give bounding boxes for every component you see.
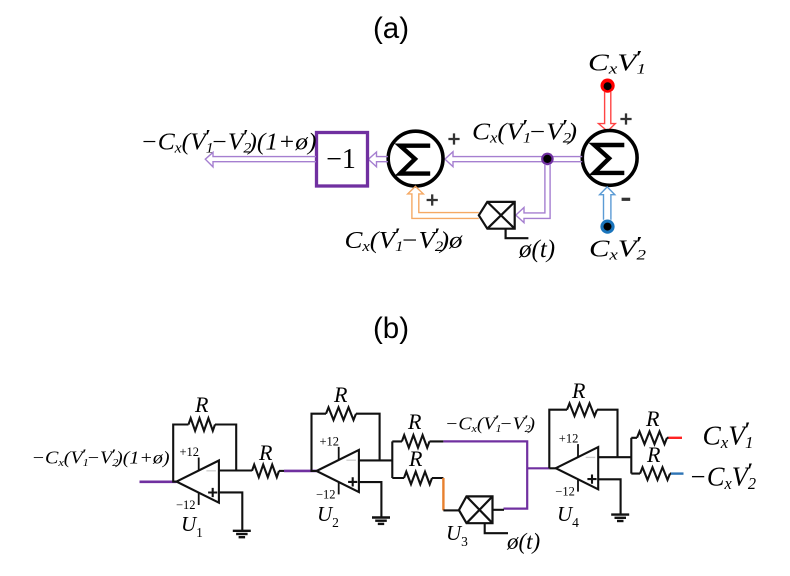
svg-text:ø(t): ø(t) (506, 529, 540, 554)
svg-text:Cx(V1′−V2′)ø: Cx(V1′−V2′)ø (345, 225, 464, 255)
svg-text:U1: U1 (181, 512, 203, 540)
svg-text:R: R (194, 392, 209, 417)
node: blue input terminal dot (600, 220, 614, 234)
summer left (sigma circle) (388, 131, 443, 186)
wire: phi(t) tap of U3 (485, 523, 508, 533)
wire: lead into top summing resistor (392, 440, 443, 442)
op-amp U1 -12 pin (198, 493, 200, 505)
wire: blue open arrow from CxV2 into right summer (600, 187, 615, 220)
svg-text:R: R (646, 442, 661, 467)
svg-text:−12: −12 (176, 498, 196, 512)
wire: lead into bottom input resistor (631, 473, 671, 475)
op-amp U1 (177, 461, 219, 503)
plus sign at left summer bottom input (427, 194, 438, 205)
wire: U4 ground connection (598, 479, 620, 514)
minus sign at blue input (622, 198, 631, 201)
wire: red open arrow from CxV1 into right summer (599, 92, 616, 131)
svg-text:(b): (b) (373, 312, 409, 345)
resistor R (top summing, from U4 output) (402, 435, 430, 448)
plus sign at red input (620, 113, 631, 124)
op-amp U1 +12 pin (198, 458, 200, 471)
svg-text:U3: U3 (446, 521, 468, 549)
op-amp U2 plus input marker (348, 477, 357, 486)
svg-text:CxV1′: CxV1′ (703, 417, 754, 452)
svg-text:+12: +12 (320, 434, 340, 448)
multiplier block (a) (479, 202, 515, 229)
svg-text:−1: −1 (326, 144, 356, 175)
wire: U4 input branch vertical (630, 438, 632, 474)
wire: purple apex jog U4 (549, 467, 556, 469)
svg-text:R: R (407, 409, 422, 434)
plus sign at left summer top input (448, 133, 459, 144)
svg-text:R: R (645, 406, 660, 431)
resistor R (CxV1 input) (637, 432, 667, 445)
wire: purple open arrow from left summer into -1 block (368, 152, 388, 167)
resistor R (CxV2 input) (640, 467, 670, 480)
resistor R (bottom summing, from U3 output) (404, 472, 432, 485)
op-amp U1 plus input marker (208, 488, 217, 497)
svg-text:R: R (571, 378, 586, 403)
wire: U4 feedback loop (549, 410, 631, 469)
op-amp U4 +12 pin (577, 444, 579, 457)
op-amp U2 -12 pin (338, 482, 340, 494)
svg-text:+12: +12 (559, 432, 579, 446)
gain block -1 (317, 133, 368, 187)
node: red input terminal dot (601, 79, 615, 93)
svg-text:−12: −12 (316, 487, 336, 501)
wire: resistor to purple U2 output segment (279, 470, 284, 472)
svg-text:U2: U2 (317, 502, 339, 530)
op-amp U4 (556, 447, 598, 489)
wire: purple open arrow from right summer to left summer (445, 152, 582, 167)
svg-text:ø(t): ø(t) (518, 236, 555, 263)
svg-text:R: R (333, 382, 348, 407)
wire: phi(t) tap of multiplier (a) (506, 229, 529, 239)
wire: lead into bottom summing resistor (392, 477, 443, 479)
ground (U4) (611, 515, 629, 521)
svg-text:−Cx(V1′−V2′)(1+ø): −Cx(V1′−V2′)(1+ø) (141, 126, 317, 156)
svg-text:R: R (258, 440, 273, 465)
svg-text:U4: U4 (557, 502, 579, 530)
svg-text:−Cx(V1′−V2′)(1+ø): −Cx(V1′−V2′)(1+ø) (32, 447, 170, 469)
op-amp U2 +12 pin (338, 447, 340, 460)
svg-text:R: R (408, 446, 423, 471)
wire: U3 output stub to purple net (493, 509, 505, 511)
op-amp U4 plus input marker (587, 475, 596, 484)
summer right (sigma circle) (582, 131, 637, 186)
wire: lead into top input resistor (631, 437, 668, 439)
wire: purple open arrow from branch dot into multiplier (516, 164, 550, 223)
svg-text:+12: +12 (180, 445, 200, 459)
op-amp U4 minus input marker (586, 456, 596, 458)
wire: U1 ground connection (219, 492, 242, 530)
ground (U1) (233, 531, 251, 537)
wire: U1 feedback loop (173, 425, 252, 482)
multiplier U3 (459, 496, 493, 523)
wire: blue terminal segment -CxV2 (671, 472, 684, 474)
resistor R (U1 feedback) (189, 418, 216, 431)
wire: into multiplier left point (443, 509, 459, 511)
wire: purple open arrow output of -1 block (205, 152, 316, 167)
node: branch dot on Cx(V1-V2) wire (541, 153, 554, 166)
wire: U2 ground connection (359, 482, 382, 517)
wire: U2 input branch vertical (391, 441, 393, 478)
op-amp U2 (317, 450, 359, 492)
svg-text:Cx(V1′−V2′): Cx(V1′−V2′) (472, 116, 577, 146)
resistor R (U2 feedback) (326, 407, 356, 420)
wire: red terminal segment CxV1 (669, 437, 683, 439)
wire: purple output of U1 (140, 480, 177, 483)
svg-text:CxV1′: CxV1′ (588, 47, 646, 77)
ground (U2) (372, 518, 390, 524)
svg-text:−Cx(V1′−V2′): −Cx(V1′−V2′) (445, 413, 535, 435)
op-amp U2 minus input marker (346, 459, 356, 461)
svg-text:−CxV2′: −CxV2′ (689, 458, 756, 493)
wire: purple output of U2 (284, 470, 317, 473)
wire: purple net U4 output to summing resistor and U3 (443, 441, 549, 508)
svg-text:−12: −12 (555, 485, 575, 499)
op-amp U4 -12 pin (577, 479, 579, 491)
wire: orange open arrow from multiplier into left summer (408, 186, 479, 218)
op-amp U1 minus input marker (206, 470, 216, 472)
svg-text:CxV2′: CxV2′ (589, 233, 647, 263)
wire: orange vertical from bottom summing resistor (442, 478, 444, 510)
wire: U2 feedback loop (312, 414, 393, 471)
resistor R (series U1-U2) (252, 465, 279, 478)
svg-text:(a): (a) (373, 12, 409, 45)
resistor R (U4 feedback) (567, 403, 597, 416)
